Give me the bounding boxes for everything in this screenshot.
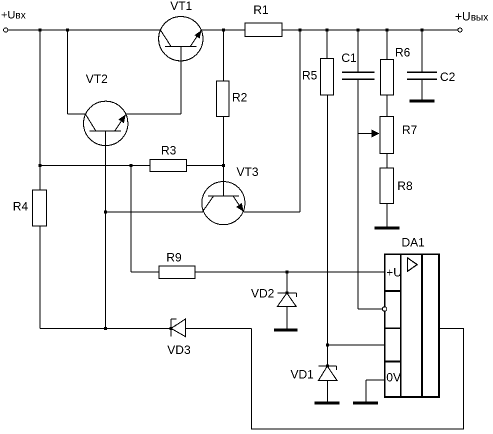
- svg-text:VT3: VT3: [237, 165, 259, 179]
- svg-text:C2: C2: [440, 70, 456, 84]
- svg-text:R2: R2: [232, 91, 248, 105]
- svg-text:R3: R3: [161, 144, 177, 158]
- svg-text:0V: 0V: [386, 370, 401, 384]
- svg-text:R6: R6: [395, 45, 411, 59]
- svg-text:VD2: VD2: [251, 287, 275, 301]
- svg-text:DA1: DA1: [402, 236, 426, 250]
- svg-text:VT2: VT2: [86, 72, 108, 86]
- svg-text:R1: R1: [253, 3, 269, 17]
- svg-text:C1: C1: [341, 51, 357, 65]
- svg-text:R8: R8: [397, 179, 413, 193]
- svg-text:VD3: VD3: [167, 343, 191, 357]
- svg-text:+U: +U: [386, 266, 402, 280]
- svg-text:R5: R5: [302, 69, 318, 83]
- svg-text:+Uвх: +Uвх: [1, 10, 26, 22]
- svg-text:R7: R7: [402, 123, 418, 137]
- svg-text:R4: R4: [13, 200, 29, 214]
- svg-text:VD1: VD1: [291, 367, 315, 381]
- svg-text:VT1: VT1: [170, 0, 192, 13]
- svg-text:+Uвых: +Uвых: [455, 9, 488, 23]
- svg-text:R9: R9: [166, 250, 182, 264]
